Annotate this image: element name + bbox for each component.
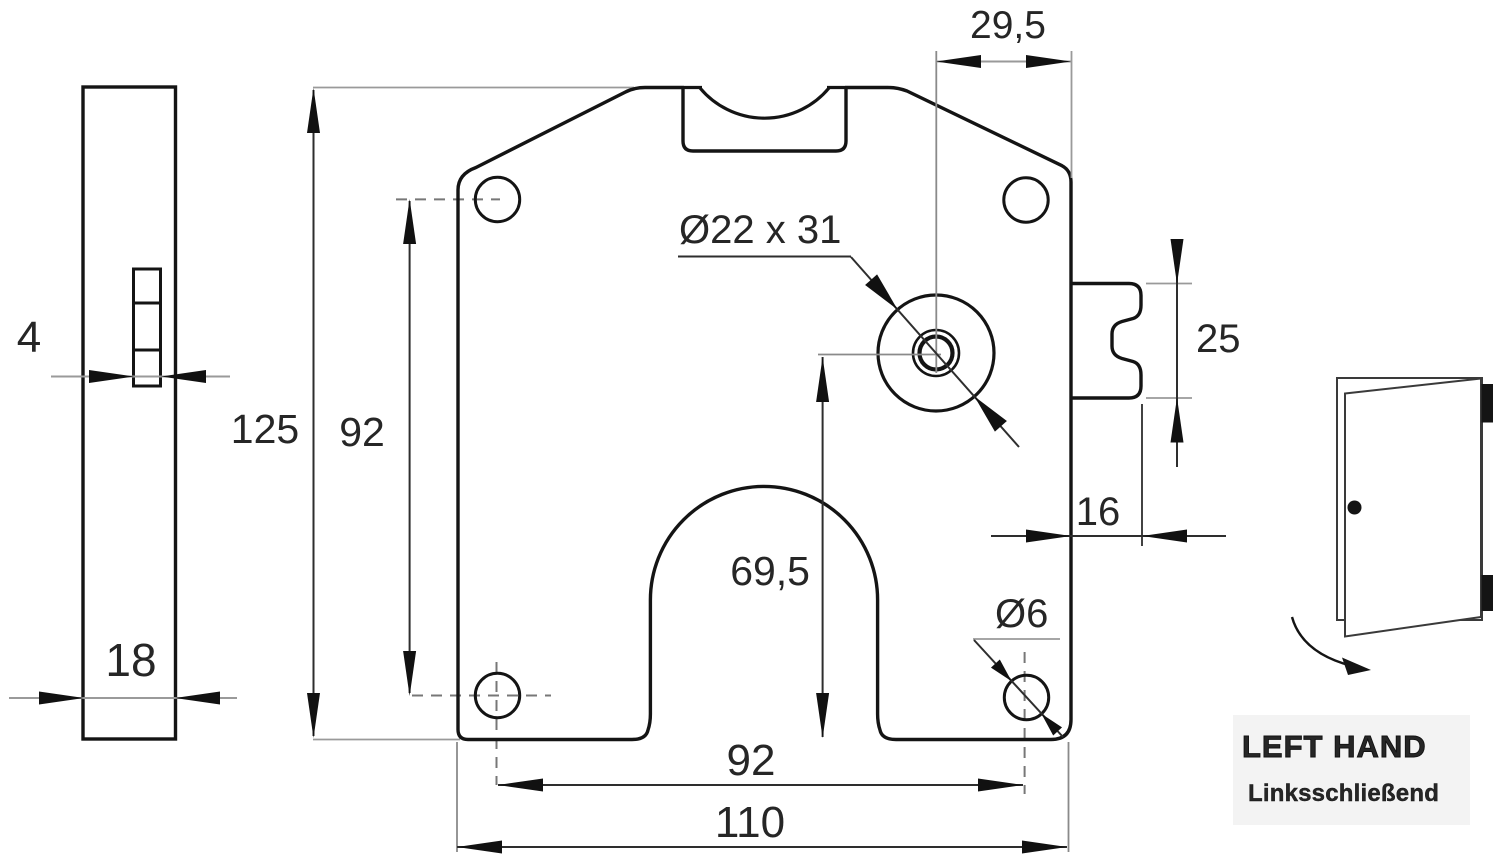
- svg-text:92: 92: [727, 736, 776, 785]
- svg-text:LEFT HAND: LEFT HAND: [1242, 729, 1427, 764]
- svg-text:Linksschließend: Linksschließend: [1248, 780, 1439, 807]
- svg-text:25: 25: [1196, 317, 1241, 361]
- svg-text:92: 92: [339, 409, 385, 455]
- svg-text:Ø6: Ø6: [995, 592, 1048, 636]
- svg-text:4: 4: [17, 313, 41, 362]
- svg-text:29,5: 29,5: [970, 4, 1046, 47]
- svg-text:18: 18: [105, 634, 156, 686]
- svg-text:110: 110: [715, 798, 785, 847]
- svg-text:125: 125: [231, 406, 299, 452]
- svg-text:16: 16: [1076, 490, 1121, 534]
- svg-text:Ø22 x 31: Ø22 x 31: [679, 208, 841, 252]
- svg-text:69,5: 69,5: [730, 548, 810, 594]
